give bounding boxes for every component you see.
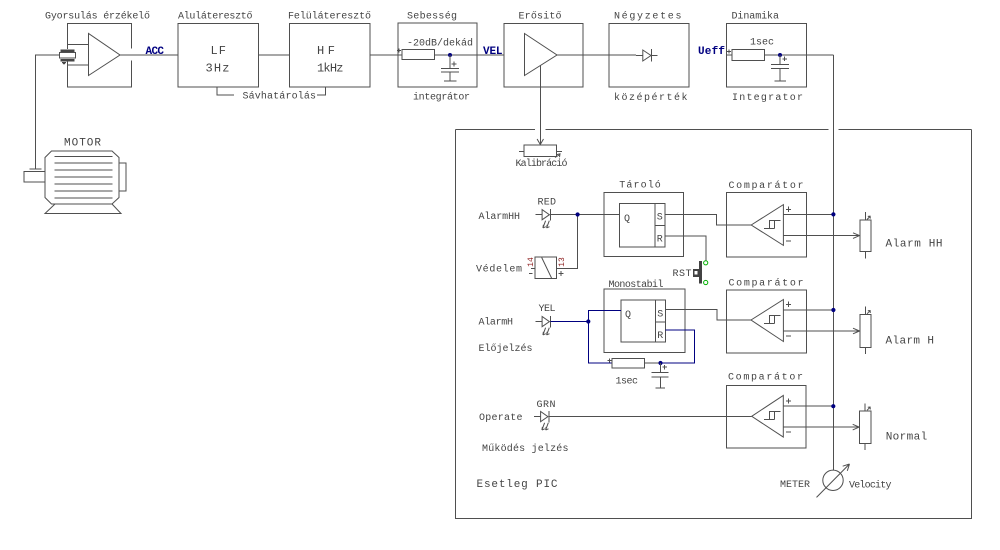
plus mark at dynamics capacitor [783, 57, 788, 62]
svg-text:Operate: Operate [479, 413, 523, 424]
meter arrow [817, 464, 850, 497]
wire node down to timing resistor [588, 322, 612, 364]
svg-text:Működés jelzés: Működés jelzés [482, 443, 569, 455]
svg-text:AlarmH: AlarmH [479, 317, 514, 329]
minus mark [529, 272, 533, 274]
comparator1 U2 triangle [751, 205, 783, 246]
svg-text:R: R [657, 331, 663, 342]
motor body [45, 151, 119, 204]
node junction AlarmHH [576, 212, 580, 216]
Alarm HH indicator lamp [864, 212, 866, 258]
svg-text:GRN: GRN [537, 400, 556, 411]
node junction comp2 [831, 308, 835, 312]
wire HF to Sebesség [370, 54, 402, 56]
svg-text:ACC: ACC [146, 46, 165, 58]
svg-text:Előjelzés: Előjelzés [479, 343, 533, 355]
LED red emission arrows [543, 221, 550, 228]
wire LED green to comparator3 [549, 416, 752, 418]
arrowhead into pot [537, 139, 543, 145]
svg-text:RST: RST [673, 269, 692, 280]
piezo element crystal [60, 53, 76, 58]
band-limit bracket right [317, 88, 326, 96]
RST top contact [704, 261, 708, 265]
svg-text:Q: Q [625, 310, 631, 321]
svg-text:Sávhatárolás: Sávhatárolás [243, 91, 317, 103]
comparator1 minus [786, 240, 791, 242]
arrow to Alarm H [853, 328, 860, 334]
accelerometer sensor box [68, 24, 132, 88]
svg-text:13: 13 [558, 257, 567, 267]
wire resistor to output [765, 54, 834, 56]
piezo arrow [62, 62, 67, 65]
op-amp triangle in sensor [89, 34, 121, 76]
comparator2 plus wire [783, 309, 833, 311]
LED yellow D3 [536, 316, 551, 328]
timing resistor 1sec [612, 359, 645, 369]
RST bottom contact [704, 280, 708, 284]
comparator3 plus wire [783, 405, 833, 407]
comparator1 plus [786, 207, 791, 212]
wire LED yellow to node [551, 321, 589, 323]
svg-text:HF: HF [317, 44, 335, 58]
protection diagonal [542, 258, 552, 279]
indicator tick [867, 216, 870, 219]
speed block box [398, 23, 477, 87]
wire S monostable to comparator2 [665, 309, 751, 320]
comparator1 box [726, 193, 806, 258]
protection left lead [531, 267, 535, 269]
comparator2 U4 triangle [751, 300, 783, 342]
LED green triangle [541, 412, 548, 422]
plus mark timing node [663, 365, 668, 370]
svg-text:METER: METER [780, 480, 810, 491]
comparator1 plus wire [783, 214, 833, 216]
amplifier box [504, 24, 583, 88]
svg-text:3Hz: 3Hz [206, 62, 230, 76]
comparator1 hysteresis [764, 220, 781, 228]
capacitor in dynamics [771, 55, 789, 81]
comparator3 U5 triangle [752, 395, 784, 437]
comparator2 plus [786, 302, 791, 307]
wire ACC output [120, 54, 178, 56]
svg-text:Tároló: Tároló [619, 180, 661, 192]
piezo top connection wire [68, 45, 89, 50]
LED red triangle [542, 210, 549, 220]
svg-text:Erősitő: Erősitő [519, 11, 562, 23]
storage flip-flop U1 [619, 204, 665, 247]
arrow to Alarm HH [853, 233, 860, 239]
svg-text:S: S [657, 213, 663, 224]
svg-text:Gyorsulás érzékelő: Gyorsulás érzékelő [45, 11, 150, 23]
Normal indicator lamp [864, 403, 866, 450]
comparator3 box [726, 386, 806, 449]
resistor in dynamics [732, 50, 765, 61]
comparator3 plus [786, 399, 791, 404]
piezo bottom connection wire [68, 62, 89, 66]
plus mark [559, 271, 564, 276]
RST push button [699, 261, 702, 283]
node junction in speed block [448, 53, 452, 57]
svg-text:VEL: VEL [483, 46, 503, 58]
motor end bell [119, 163, 126, 191]
motor fins [55, 156, 113, 198]
band-limit bracket left [217, 88, 234, 96]
svg-text:Kalibráció: Kalibráció [516, 158, 568, 170]
controller big box [456, 129, 972, 518]
svg-text:LF: LF [211, 44, 227, 58]
diode D1 [636, 49, 658, 62]
LED yellow emission arrows [543, 328, 550, 335]
svg-text:YEL: YEL [539, 304, 556, 315]
low-pass filter box LF [178, 24, 259, 88]
Alarm H indicator lamp [864, 307, 866, 355]
squaring block box [609, 24, 689, 88]
svg-text:1sec: 1sec [616, 377, 639, 388]
motor mounting tick [30, 168, 42, 170]
svg-text:MOTOR: MOTOR [64, 138, 101, 150]
svg-text:középérték: középérték [614, 92, 688, 104]
wire node to Q monostable [588, 311, 621, 322]
wire resistor to amplifier [435, 54, 505, 56]
comparator2 minus wire [783, 330, 859, 332]
LED yellow triangle [542, 317, 549, 327]
monostable outer box [604, 289, 685, 353]
amplifier triangle [525, 34, 558, 76]
motor shaft [24, 172, 45, 183]
timing capacitor [652, 363, 669, 388]
resistor in speed block [402, 50, 435, 60]
dynamics box [727, 24, 807, 88]
motor base [45, 204, 121, 214]
comparator3 hysteresis [764, 412, 781, 420]
svg-text:Ueff: Ueff [698, 46, 725, 58]
node junction in dynamics [778, 53, 782, 57]
svg-text:Alarm H: Alarm H [886, 336, 935, 348]
protection box K1 [535, 257, 557, 279]
wire LED to flip-flop Q [551, 214, 620, 216]
arrow to Normal [853, 424, 860, 430]
svg-text:Alarm HH: Alarm HH [886, 239, 943, 251]
node timing junction [658, 361, 662, 365]
plus mark at capacitor [452, 62, 457, 67]
wire R output to RST [665, 236, 706, 260]
plus mark at resistor [397, 49, 401, 53]
piezo element bottom plate [61, 59, 75, 62]
svg-text:S: S [657, 310, 663, 321]
svg-text:integrátor: integrátor [413, 92, 470, 104]
comparator1 minus wire [783, 235, 859, 237]
svg-text:Négyzetes: Négyzetes [614, 11, 682, 23]
plus mark at dynamics resistor [727, 50, 731, 54]
svg-text:Dinamika: Dinamika [732, 11, 780, 23]
wire protection to AlarmHH node [557, 217, 578, 269]
LED green emission arrows [542, 423, 549, 430]
svg-text:Védelem: Védelem [476, 264, 522, 276]
svg-text:Comparátor: Comparátor [729, 278, 804, 290]
svg-text:Integrator: Integrator [732, 93, 803, 104]
svg-text:Q: Q [624, 214, 630, 225]
plus mark timing resistor [608, 359, 612, 363]
wire into dynamics resistor [727, 54, 733, 56]
wire amplifier to Négyzetes [557, 54, 636, 56]
node junction AlarmH [586, 319, 590, 323]
svg-text:Normal: Normal [886, 432, 928, 444]
svg-text:Velocity: Velocity [849, 480, 892, 492]
main velocity wire down [832, 55, 834, 470]
wire piezo to motor [36, 55, 60, 169]
pot terminal line [519, 151, 562, 153]
svg-text:AlarmHH: AlarmHH [479, 211, 521, 223]
comparator3 minus wire [783, 426, 859, 428]
svg-text:14: 14 [527, 257, 536, 267]
svg-text:Comparátor: Comparátor [728, 372, 803, 384]
wire LF to HF [259, 54, 290, 56]
comparator2 box [726, 290, 806, 353]
svg-text:RED: RED [538, 198, 557, 209]
monostable flip-flop U3 [621, 300, 666, 342]
svg-text:Comparátor: Comparátor [729, 180, 804, 192]
node junction comp1 [831, 212, 835, 216]
LED green D4 [534, 411, 549, 423]
comparator2 hysteresis [764, 315, 781, 323]
svg-text:R: R [657, 235, 663, 246]
high-pass filter box HF [290, 24, 371, 88]
storage outer box [604, 193, 684, 257]
svg-text:Sebesség: Sebesség [407, 11, 457, 23]
LED red D2 [536, 209, 551, 221]
piezo element top plate [61, 50, 75, 53]
indicator tick 3 [867, 407, 870, 410]
meter M1 circle [823, 470, 843, 490]
calibration pot "Kalibráció" [524, 145, 556, 156]
diode triangle [643, 50, 651, 61]
wire resistor to timing node [645, 362, 661, 364]
pot wiper mark [555, 154, 560, 158]
svg-text:1kHz: 1kHz [317, 62, 344, 76]
comparator3 minus [786, 431, 791, 433]
svg-text:Aluláteresztő: Aluláteresztő [178, 11, 253, 23]
svg-text:Felüláteresztő: Felüláteresztő [288, 11, 371, 23]
wire to calibration pot [539, 66, 541, 144]
svg-text:Esetleg PIC: Esetleg PIC [477, 479, 558, 491]
svg-text:1sec: 1sec [750, 38, 774, 49]
indicator tick 2 [867, 311, 870, 314]
svg-text:-20dB/dekád: -20dB/dekád [407, 38, 473, 50]
node junction comp3 [831, 404, 835, 408]
comparator2 minus [786, 335, 791, 337]
RST button actuator [693, 269, 700, 277]
wire S output to comparator1 [665, 214, 751, 225]
wire timing node to R monostable [661, 330, 695, 363]
capacitor in speed block [441, 55, 459, 81]
